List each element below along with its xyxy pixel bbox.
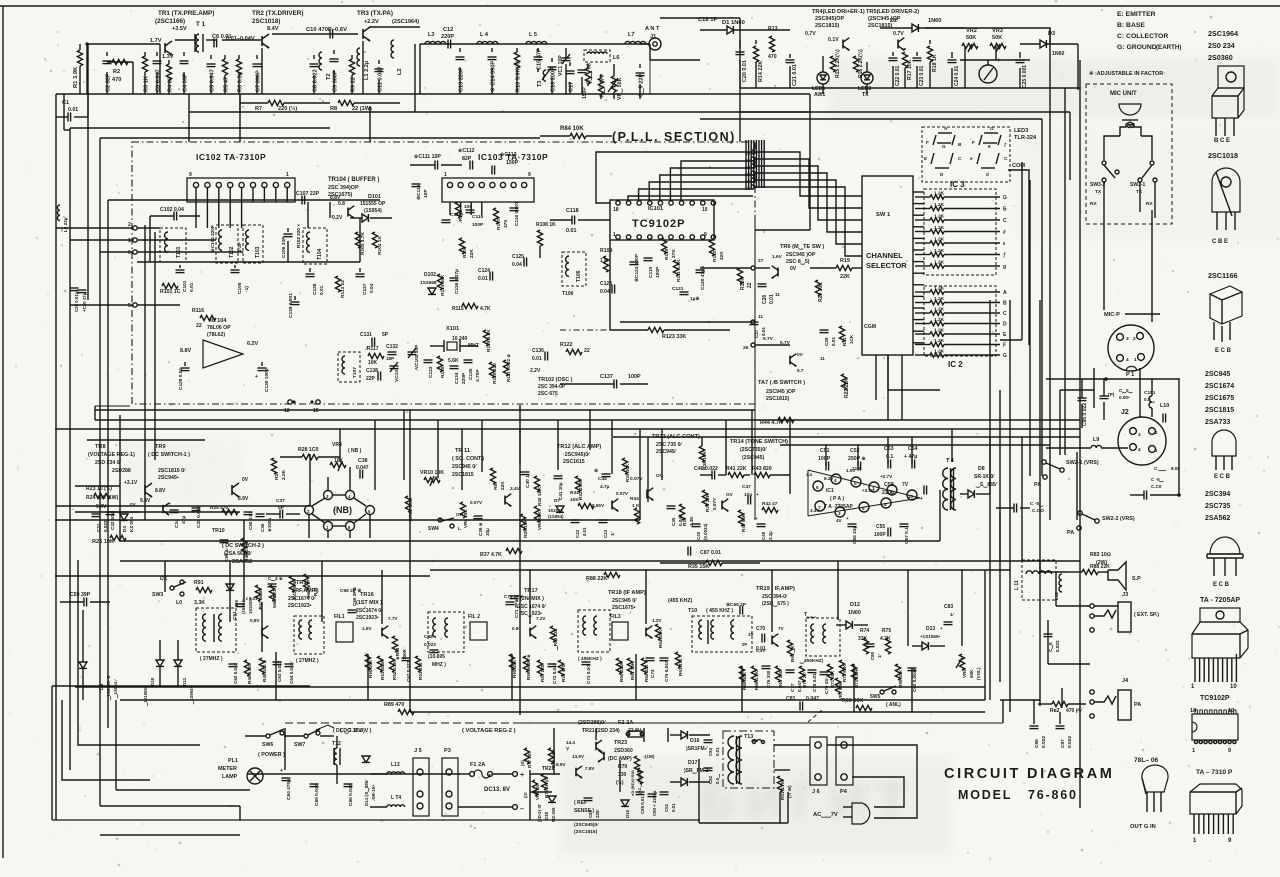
svg-text:SELECTOR: SELECTOR: [866, 261, 907, 270]
capacitor C8: [310, 55, 319, 94]
svg-text:2SC1675: 2SC1675: [1205, 395, 1234, 402]
svg-text:R72 82K: R72 82K: [842, 664, 847, 682]
transistor TR17 label: [510, 588, 547, 618]
svg-text:11: 11: [820, 356, 825, 361]
resistor R46: [244, 660, 252, 684]
svg-text:(1ST MIX ): (1ST MIX ): [356, 600, 382, 606]
svg-text:0.01: 0.01: [761, 327, 766, 336]
svg-text:1.2K: 1.2K: [934, 296, 945, 302]
fuse F1: [458, 762, 524, 779]
svg-text:R9 22: R9 22: [351, 77, 357, 92]
transistor TR5 label: [866, 9, 919, 37]
svg-text:R30 15 K: R30 15 K: [537, 486, 542, 506]
svg-text:C79 33⁄: C79 33⁄: [824, 677, 829, 694]
wire bottom v1: [284, 728, 286, 770]
capacitor C88: [584, 798, 601, 818]
svg-text:100P: 100P: [628, 374, 641, 380]
capacitor C39: [474, 516, 491, 536]
svg-text:100P: 100P: [874, 532, 886, 538]
antenna J1: [640, 26, 661, 50]
svg-text:0.022: 0.022: [103, 520, 108, 532]
wire mid v6: [984, 570, 986, 700]
capacitor C35: [192, 506, 203, 528]
svg-text:R122: R122: [560, 342, 573, 348]
legend base: [1117, 22, 1145, 29]
capacitor C86: [344, 784, 355, 806]
package 2SC1964 TO-220: [1212, 66, 1244, 144]
capacitor C16: [548, 58, 557, 94]
svg-text:2SC1923•: 2SC1923•: [288, 603, 312, 609]
capacitor C98: [1044, 634, 1061, 652]
capacitor C124: [478, 268, 493, 282]
wire left v6: [119, 415, 121, 541]
resistor R12: [598, 74, 606, 99]
wire rail f3: [430, 569, 1010, 571]
capacitor C138: [366, 368, 381, 382]
svg-text:2S0 234: 2S0 234: [1208, 41, 1235, 50]
svg-text:C2 82P: C2 82P: [106, 73, 112, 92]
svg-text:※: ※: [594, 467, 598, 474]
svg-text:MIC UNIT: MIC UNIT: [1110, 91, 1137, 97]
node junction 11: [751, 314, 763, 324]
filter FIL1: [334, 614, 353, 642]
svg-text:(VOL): (VOL): [976, 667, 981, 680]
capacitor C26: [758, 284, 781, 304]
svg-text:LED3: LED3: [1014, 128, 1028, 134]
svg-text:+: +: [520, 772, 524, 779]
svg-text:TR22: TR22: [542, 766, 554, 772]
capacitor C128: [306, 268, 326, 295]
node NB2: [324, 491, 333, 500]
resistor R18: [927, 40, 938, 88]
capacitor C93: [704, 740, 721, 756]
resistor R118: [437, 356, 459, 378]
svg-text:R40 56K: R40 56K: [741, 513, 746, 532]
resistor R54: [392, 636, 407, 660]
capacitor C10: [330, 30, 333, 39]
wire rail g1: [285, 710, 1003, 723]
svg-text:C42: C42: [575, 529, 580, 538]
svg-text:C97: C97: [1060, 739, 1066, 748]
filter FIL2: [468, 614, 487, 640]
resistor R110: [661, 238, 677, 260]
svg-text:IC 104: IC 104: [210, 318, 227, 324]
transistor TR3: [363, 27, 370, 41]
lamp PL1: [218, 758, 263, 784]
svg-text:×D (BE)0⁄ R80: ×D (BE)0⁄ R80: [630, 769, 635, 796]
wire bottom links: [554, 728, 810, 792]
svg-text:R89 470: R89 470: [384, 702, 404, 708]
svg-text:0V: 0V: [797, 352, 804, 358]
svg-text:1: 1: [1134, 357, 1137, 363]
svg-text:+3.1V: +3.1V: [124, 480, 138, 486]
svg-text:TX: TX: [862, 92, 869, 98]
svg-text:SR-1K 0⁄: SR-1K 0⁄: [974, 474, 995, 480]
svg-text:1 K: 1 K: [600, 258, 608, 264]
package TC9102P DIP18: [1190, 708, 1238, 754]
svg-text:C34: C34: [174, 519, 180, 528]
svg-text:5.6K: 5.6K: [448, 358, 459, 364]
wire minus: [458, 805, 524, 813]
svg-text:5W5: 5W5: [870, 694, 881, 700]
wire display fan: [747, 187, 749, 189]
transistor TA7: [763, 336, 804, 373]
resistor R3: [142, 52, 149, 94]
svg-text:4: 4: [834, 478, 837, 483]
svg-text:TR19 ( IF,AMP): TR19 ( IF,AMP): [756, 586, 795, 592]
potentiometer VR2: [962, 28, 978, 52]
svg-text:11: 11: [758, 314, 763, 320]
svg-text:27K: 27K: [671, 249, 677, 258]
svg-text:VR‿ 50K: VR‿ 50K: [617, 77, 624, 100]
svg-text:(½ W): (½ W): [786, 785, 792, 798]
svg-text:+: +: [920, 496, 923, 502]
resistor R102: [296, 224, 301, 248]
resistor R75: [880, 628, 891, 654]
resistor R106: [459, 238, 475, 258]
svg-text:C43: C43: [603, 529, 608, 538]
svg-text:G: G: [1003, 353, 1007, 359]
inductor L7: [625, 32, 646, 44]
display COM label: [1008, 163, 1029, 345]
svg-text:C116 0.001: C116 0.001: [514, 201, 520, 226]
svg-text:50K: 50K: [966, 35, 976, 41]
wire nested h1: [70, 127, 330, 129]
svg-text:(2SC735)0⁄: (2SC735)0⁄: [740, 447, 767, 453]
resistor array R215 1.2K: [915, 328, 1007, 339]
svg-text:10K: 10K: [570, 497, 579, 503]
svg-text:0.8: 0.8: [338, 201, 345, 207]
svg-text:0.04: 0.04: [600, 289, 610, 295]
svg-text:PA: PA: [1067, 530, 1074, 536]
svg-text:( 27MHZ ): ( 27MHZ ): [296, 658, 319, 664]
svg-text:R75: R75: [882, 628, 891, 634]
svg-text:C88: C88: [588, 809, 593, 818]
svg-text:·2SC945)0⁄: ·2SC945)0⁄: [563, 452, 590, 458]
svg-text:(P): (P): [1108, 392, 1115, 398]
wire rail g2: [248, 736, 460, 774]
svg-text:13.4: 13.4: [852, 466, 861, 471]
inductor T102: [209, 225, 238, 263]
capacitor C58: [882, 482, 927, 502]
svg-text:(2SC945)0⁄: (2SC945)0⁄: [574, 822, 599, 828]
capacitor C15: [534, 48, 543, 72]
svg-text:2P: 2P: [742, 642, 747, 647]
svg-text:e: e: [970, 156, 973, 161]
svg-text:2SC1615: 2SC1615: [563, 459, 585, 465]
transistor TR23: [572, 740, 633, 762]
wire spk area: [1040, 560, 1090, 664]
node pin5: [128, 303, 137, 309]
svg-text:220⁄: 220⁄: [595, 809, 600, 818]
svg-text:+2.7V: +2.7V: [880, 474, 893, 479]
resistor R30: [534, 476, 542, 506]
resistor R65: [739, 666, 747, 690]
wire band verticals: [310, 410, 790, 506]
svg-text:J1: J1: [650, 34, 656, 40]
svg-text:( DC ‿3. 8 V ): ( DC ‿3. 8 V ): [333, 728, 365, 735]
svg-text:SW6: SW6: [262, 742, 273, 748]
svg-text:1: 1: [444, 172, 447, 178]
svg-text:C48: C48: [761, 531, 766, 540]
svg-text:T103: T103: [255, 246, 261, 258]
wire mid h 506: [56, 440, 310, 512]
wire top right vert: [1050, 28, 1078, 90]
svg-text:(2N⁄ MIX ): (2N⁄ MIX ): [520, 596, 544, 602]
svg-text:0.047: 0.047: [806, 696, 819, 702]
NB label: [333, 505, 352, 515]
svg-text:C125: C125: [512, 254, 524, 260]
resistor R8: [330, 100, 400, 112]
capacitor C106: [281, 228, 293, 262]
capacitor C115: [466, 210, 485, 228]
resistor R45: [241, 538, 250, 562]
wire bottom v2: [529, 770, 531, 820]
svg-text:33K: 33K: [858, 636, 868, 642]
wire misc4: [650, 44, 700, 60]
svg-text:0,65V: 0,65V: [592, 503, 605, 508]
svg-text:3,4V: 3,4V: [510, 486, 521, 492]
capacitor C21: [786, 54, 799, 88]
resistor R71: [827, 664, 835, 688]
capacitor C11: [375, 60, 384, 94]
wire rail m6: [120, 540, 940, 542]
svg-text:0.8⁄: 0.8⁄: [512, 626, 520, 631]
svg-text:2SC 1674 0⁄: 2SC 1674 0⁄: [518, 604, 546, 610]
svg-text:B: BASE: B: BASE: [1117, 22, 1145, 29]
svg-text:METER: METER: [218, 766, 237, 772]
svg-text:(2SC‿675 ): (2SC‿675 ): [762, 601, 789, 608]
svg-text:TR23: TR23: [614, 740, 627, 746]
svg-text:2SC 735 0⁄: 2SC 735 0⁄: [656, 442, 683, 448]
capacitor C13: [456, 48, 465, 94]
resistor array R204 1.2K: [915, 225, 1006, 236]
svg-text:R13: R13: [768, 26, 778, 32]
svg-text:R14 22K: R14 22K: [758, 61, 764, 82]
svg-text:CGM: CGM: [864, 324, 876, 330]
transistor TR10 label2: [222, 543, 264, 565]
svg-text:C25 0.001: C25 0.001: [1022, 65, 1028, 88]
svg-text:0.01: 0.01: [68, 107, 78, 113]
svg-text:22: 22: [196, 323, 202, 329]
diode D102: [420, 272, 437, 294]
label ref sense: [574, 800, 599, 835]
potentiometer VR7: [835, 678, 843, 700]
svg-text:220µ: 220µ: [882, 490, 894, 496]
connector J6: [810, 737, 827, 795]
wire display bundle: [746, 140, 764, 188]
diode D7: [548, 498, 564, 519]
svg-text:D101: D101: [368, 194, 381, 200]
IC IC1 voltages: [806, 466, 909, 523]
wire misc3: [369, 107, 371, 142]
svg-text:8.5V: 8.5V: [556, 762, 566, 767]
svg-text:※100µ: ※100µ: [266, 517, 272, 532]
inductor L4: [477, 32, 498, 44]
svg-text:R77 1K: R77 1K: [527, 752, 532, 768]
svg-text:2SC 394-0⁄: 2SC 394-0⁄: [762, 594, 788, 600]
svg-text:0.01: 0.01: [582, 527, 587, 536]
svg-text:TR6 (M‿TE SW ): TR6 (M‿TE SW ): [780, 244, 824, 251]
svg-text:SW 1: SW 1: [876, 212, 891, 218]
potentiometer VR4 pot: [330, 458, 346, 471]
svg-text:0.07V: 0.07V: [470, 500, 483, 505]
wire rail f1: [55, 575, 430, 577]
svg-text:18P: 18P: [386, 356, 394, 361]
svg-text:8.9V: 8.9V: [238, 496, 249, 502]
wire left nest e: [116, 700, 250, 790]
svg-text:18: 18: [613, 207, 619, 213]
svg-text:R103 4.7K: R103 4.7K: [360, 232, 366, 255]
svg-text:0.07V: 0.07V: [630, 476, 643, 482]
svg-text:D5: D5: [234, 600, 239, 606]
package 78L-06: [1130, 765, 1168, 830]
svg-text:1.2K: 1.2K: [934, 328, 945, 334]
diode D13: [912, 626, 945, 650]
resistor R104: [372, 232, 383, 255]
part label TA-7310P: [1196, 769, 1233, 776]
svg-text:2SC945 0⁄: 2SC945 0⁄: [612, 598, 637, 604]
svg-text:( NB ): ( NB ): [348, 448, 362, 454]
IC IC104: [180, 318, 258, 368]
resistor R25: [92, 535, 126, 545]
svg-text:(NB): (NB): [333, 505, 352, 515]
wire rail g3: [52, 819, 700, 821]
diode D18: [537, 796, 556, 822]
svg-text:OV: OV: [726, 492, 734, 497]
resistor R111: [673, 259, 682, 282]
svg-text:6: 6: [128, 250, 131, 256]
microphone: [1119, 104, 1141, 120]
svg-text:26: 26: [743, 345, 749, 351]
svg-text:J3: J3: [1122, 592, 1128, 598]
capacitor C89: [636, 792, 646, 814]
capacitor C113: [492, 151, 519, 175]
switch SW2-2: [1067, 511, 1135, 536]
capacitor C65: [908, 668, 918, 692]
svg-text:10: 10: [1230, 684, 1237, 690]
title circuit diagram: [944, 766, 1114, 782]
svg-text:0.1V: 0.1V: [828, 37, 839, 43]
svg-text:(2SC1964): (2SC1964): [392, 19, 419, 25]
svg-text:220P: 220P: [461, 372, 467, 384]
transistor TR17: [512, 616, 546, 638]
svg-text:2SC1815): 2SC1815): [766, 396, 790, 402]
capacitor C116: [510, 201, 521, 226]
display LED3 box: [922, 127, 1010, 182]
resistor R64: [655, 624, 663, 648]
switch SW2-1: [1034, 460, 1099, 488]
svg-text:3.3µ: 3.3µ: [768, 531, 773, 540]
transistor TR13 label: [652, 434, 700, 455]
svg-text:4V: 4V: [836, 518, 843, 523]
border frame left: [2, 6, 4, 858]
capacitor C131: [360, 332, 389, 347]
svg-text:C129 0.01: C129 0.01: [178, 368, 184, 390]
svg-text:IC 2: IC 2: [948, 360, 963, 369]
svg-text:100P: 100P: [655, 266, 661, 278]
svg-text:1.2K: 1.2K: [934, 248, 945, 254]
svg-text:MODEL: MODEL: [958, 788, 1012, 802]
wire mid v3: [609, 240, 611, 330]
svg-text:БИГИТ: БИГИТ: [700, 773, 917, 829]
svg-text:C92: C92: [708, 775, 713, 784]
svg-text:TA - 7205AP: TA - 7205AP: [1200, 597, 1240, 604]
svg-text:C87 0.01: C87 0.01: [700, 550, 721, 556]
resistor R9: [349, 55, 356, 94]
svg-text:9: 9: [1228, 748, 1231, 754]
svg-text:150P: 150P: [506, 160, 519, 166]
fuse F2: [618, 720, 644, 737]
svg-text:0,4V: 0,4V: [756, 648, 766, 653]
svg-text:( VOLTAGE REG-2 ): ( VOLTAGE REG-2 ): [462, 728, 516, 734]
IC IC101: [610, 200, 714, 240]
part label TA-7205AP: [1200, 597, 1240, 604]
part label TC9102P: [1200, 695, 1230, 702]
svg-text:330: 330: [618, 772, 627, 778]
svg-text:D3: D3: [1048, 31, 1055, 37]
resistor R29: [520, 514, 529, 538]
capacitor C59b: [60, 592, 110, 607]
resistor array R211 1.2K: [915, 286, 1007, 297]
wire r7 verts: [240, 44, 415, 112]
svg-text:+1S1555•: +1S1555•: [920, 634, 941, 639]
svg-text:+: +: [756, 493, 759, 498]
resistor R67: [775, 666, 783, 688]
LED LED1: [812, 56, 829, 98]
svg-text:J 6: J 6: [812, 789, 820, 795]
transistor TR2: [262, 34, 269, 48]
capacitor C118: [550, 208, 610, 234]
svg-text:C78 0.01: C78 0.01: [812, 673, 817, 692]
capacitor C77: [786, 670, 803, 692]
part label 2SC1018: [1208, 151, 1238, 160]
inductor T107: [338, 352, 360, 382]
svg-text:2S0360: 2S0360: [1208, 53, 1233, 62]
svg-text:C ·5‿: C ·5‿: [1030, 501, 1044, 508]
resistor R121: [503, 354, 511, 382]
capacitor C97: [1056, 712, 1074, 748]
wire left nest a: [52, 686, 310, 820]
svg-text:RX: RX: [1146, 201, 1153, 207]
wire misc1: [188, 112, 190, 142]
resistor R117: [365, 346, 394, 366]
svg-text:F1 2A: F1 2A: [470, 762, 485, 768]
svg-text:1: 1: [1192, 748, 1195, 754]
svg-text:0.04: 0.04: [512, 262, 522, 268]
capacitor C12: [441, 27, 454, 49]
capacitor C114: [442, 212, 464, 223]
svg-text:SW2-2 (VRS): SW2-2 (VRS): [1102, 516, 1135, 522]
wire bottom v3: [1002, 700, 1004, 723]
svg-text:C139 0.001: C139 0.001: [288, 293, 294, 318]
svg-text:TR16: TR16: [360, 592, 374, 598]
svg-text:R28 1C0: R28 1C0: [298, 447, 319, 453]
wire pll dashdot h: [560, 329, 648, 331]
capacitor C101: [176, 265, 196, 292]
wire tx bottom rail2: [189, 94, 810, 112]
svg-text:J4: J4: [1122, 678, 1129, 684]
svg-text:TR17: TR17: [524, 588, 538, 594]
svg-text:C36: C36: [260, 523, 265, 532]
svg-text:AC‿‿7V: AC‿‿7V: [813, 812, 838, 819]
svg-text:1.2K: 1.2K: [934, 317, 945, 323]
wire ic1 tops: [826, 429, 990, 494]
svg-text:-1): -1): [244, 286, 250, 292]
svg-text:1.2K: 1.2K: [934, 214, 945, 220]
resistor R36: [679, 504, 694, 526]
resistor R116: [192, 308, 216, 329]
